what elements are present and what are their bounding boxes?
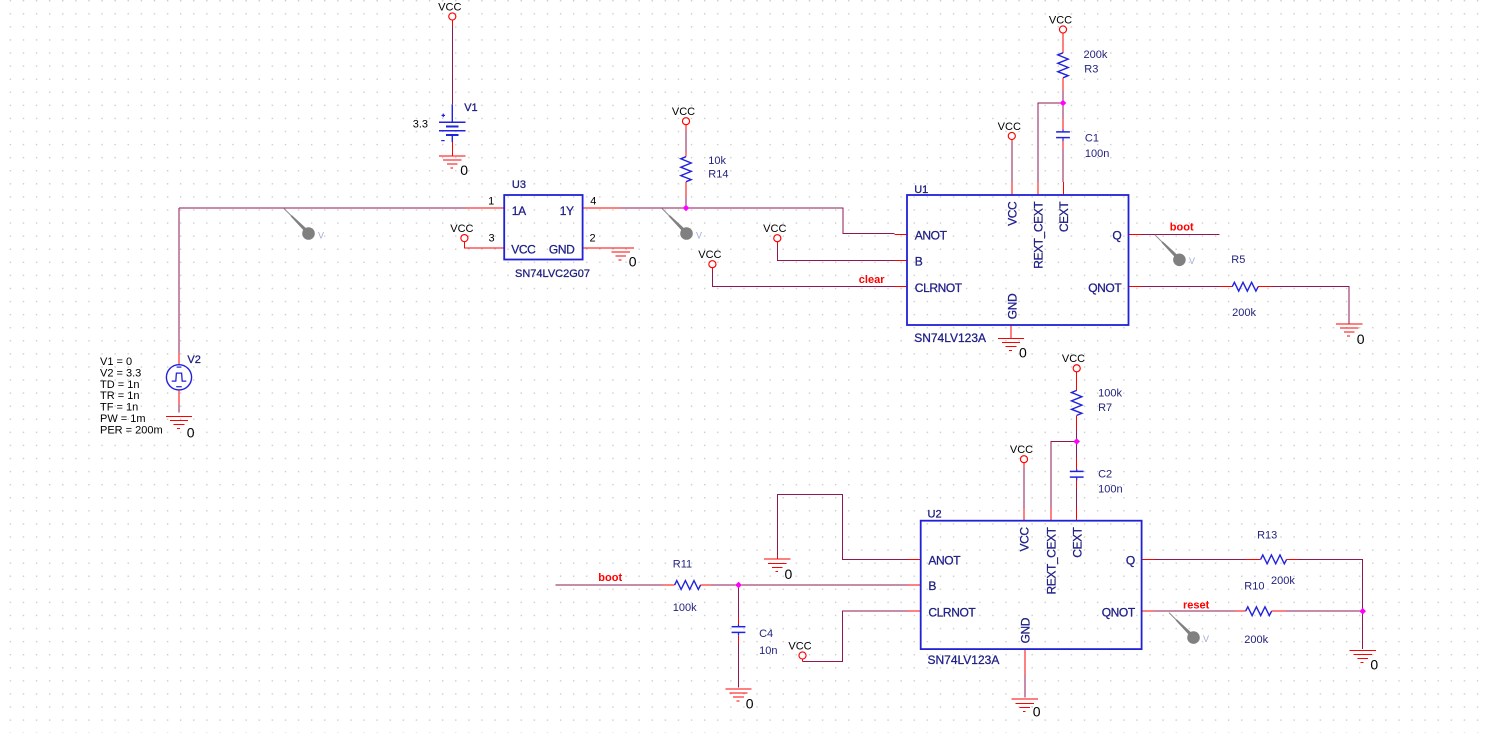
svg-text:VCC: VCC bbox=[698, 249, 721, 261]
battery V1 bbox=[413, 20, 478, 156]
svg-text:TF = 1n: TF = 1n bbox=[100, 402, 138, 414]
ground 0 (U2 ANOT) bbox=[764, 555, 792, 582]
wire C4 to ground bbox=[738, 644, 740, 688]
svg-text:R10: R10 bbox=[1244, 581, 1264, 593]
svg-text:3.3: 3.3 bbox=[413, 119, 428, 131]
svg-text:3: 3 bbox=[488, 233, 494, 245]
svg-text:Q: Q bbox=[1126, 554, 1135, 568]
wire junction D to ground bbox=[1362, 611, 1364, 649]
svg-text:VCC: VCC bbox=[438, 2, 461, 14]
svg-text:R7: R7 bbox=[1098, 402, 1112, 414]
capacitor C2 bbox=[1070, 459, 1123, 496]
svg-text:0: 0 bbox=[1370, 657, 1378, 673]
svg-text:0: 0 bbox=[746, 696, 754, 712]
svg-text:QNOT: QNOT bbox=[1102, 605, 1136, 619]
svg-text:SN74LV123A: SN74LV123A bbox=[914, 331, 986, 345]
svg-text:boot: boot bbox=[1170, 222, 1194, 234]
wire VCC to R7 mid bbox=[1076, 374, 1078, 385]
svg-text:clear: clear bbox=[859, 274, 885, 286]
wire R10 to junction D bbox=[1286, 610, 1363, 612]
wire VCC to R3 none / R3 to junction A bbox=[1062, 90, 1064, 103]
svg-text:REXT_CEXT: REXT_CEXT bbox=[1044, 526, 1058, 594]
svg-text:V: V bbox=[318, 231, 324, 241]
wire boot net to R11 bbox=[556, 584, 663, 586]
pulse source V2 bbox=[166, 353, 200, 404]
svg-text:100k: 100k bbox=[1098, 387, 1122, 399]
svg-text:VCC: VCC bbox=[998, 121, 1021, 133]
svg-text:V: V bbox=[696, 231, 702, 241]
wire R5 to ground bbox=[1272, 287, 1350, 324]
svg-text:200k: 200k bbox=[1084, 49, 1108, 61]
ground 0 (U2 GND) bbox=[1012, 699, 1041, 719]
power VCC (R14) bbox=[672, 106, 695, 125]
svg-text:200k: 200k bbox=[1232, 307, 1256, 319]
voltage probe VP2 bbox=[662, 209, 702, 241]
power VCC (R7) bbox=[1062, 353, 1085, 372]
svg-text:GND: GND bbox=[549, 242, 575, 256]
wire V1 to VCC bbox=[451, 27, 453, 105]
wire junction B to C2 bbox=[1076, 442, 1078, 459]
wire ground to U2 ANOT bbox=[777, 494, 907, 559]
wire junction B to U2 REXT_CEXT bbox=[1051, 442, 1077, 508]
power VCC (U1 CLRNOT) bbox=[698, 249, 721, 270]
voltage probe VP4 bbox=[1169, 613, 1209, 645]
svg-text:B: B bbox=[928, 579, 936, 593]
wire VCC to U1 B bbox=[777, 245, 894, 261]
wire C2 to U2 CEXT bbox=[1076, 488, 1078, 508]
resistor R14 bbox=[681, 124, 729, 196]
svg-text:V2 = 3.3: V2 = 3.3 bbox=[100, 367, 141, 379]
wire net IN vertical to V2 bbox=[178, 208, 180, 353]
svg-text:R3: R3 bbox=[1084, 64, 1098, 76]
svg-text:SN74LVC2G07: SN74LVC2G07 bbox=[515, 268, 590, 280]
svg-text:R13: R13 bbox=[1257, 530, 1277, 542]
power VCC (U1 VCC pin) bbox=[998, 121, 1021, 142]
svg-text:0: 0 bbox=[187, 425, 195, 441]
svg-text:CEXT: CEXT bbox=[1070, 526, 1084, 557]
svg-text:100n: 100n bbox=[1098, 483, 1122, 495]
svg-text:ANOT: ANOT bbox=[928, 554, 961, 568]
wire boot net from U1 Q bbox=[1142, 233, 1220, 235]
wire VCC to U2 VCC pin bbox=[1023, 468, 1025, 508]
wire junction A to C1 bbox=[1062, 103, 1064, 119]
junction node D bbox=[1359, 608, 1366, 615]
svg-text:boot: boot bbox=[598, 572, 622, 584]
wire R13 to junction D bbox=[1298, 559, 1363, 611]
svg-text:R5: R5 bbox=[1231, 254, 1245, 266]
svg-text:GND: GND bbox=[1006, 293, 1020, 319]
svg-text:V1 = 0: V1 = 0 bbox=[100, 356, 132, 368]
svg-text:reset: reset bbox=[1183, 599, 1210, 611]
wire U2 GND to ground bbox=[1024, 675, 1026, 698]
wire clear net VCC to U1 CLRNOT bbox=[712, 271, 894, 287]
svg-text:Q: Q bbox=[1112, 229, 1121, 243]
ground 0 (R13 R10) bbox=[1350, 651, 1379, 673]
svg-text:PW = 1m: PW = 1m bbox=[100, 413, 146, 425]
V2 parameter text bbox=[100, 356, 163, 436]
resistor R13 bbox=[1246, 530, 1298, 587]
svg-text:B: B bbox=[915, 255, 923, 269]
wire C1 to U1 CEXT bbox=[1062, 148, 1064, 182]
power VCC (V1) bbox=[438, 2, 461, 21]
voltage probe VP1 bbox=[284, 209, 324, 241]
resistor R11 bbox=[663, 558, 711, 614]
svg-text:VCC: VCC bbox=[763, 223, 786, 235]
power VCC (U1 B input) bbox=[763, 223, 786, 244]
power VCC (U3 pin3) bbox=[450, 223, 473, 242]
svg-text:100n: 100n bbox=[1085, 148, 1109, 160]
resistor R10 bbox=[1235, 581, 1286, 646]
wire junction C to C4 bbox=[738, 585, 740, 618]
resistor R3 bbox=[1058, 33, 1108, 91]
monostable U1 SN74LV123A bbox=[894, 182, 1141, 345]
wire VCC to U2 CLRNOT bbox=[803, 611, 908, 661]
svg-text:V: V bbox=[1189, 256, 1195, 266]
ground 0 (R5) bbox=[1336, 324, 1365, 347]
svg-text:V1: V1 bbox=[464, 102, 477, 114]
svg-text:VCC: VCC bbox=[1006, 201, 1020, 226]
wire reset net U2 QNOT to R10 bbox=[1155, 610, 1236, 612]
buffer U3 SN74LVC2G07 bbox=[464, 179, 620, 280]
ground 0 (V2) bbox=[166, 417, 195, 441]
svg-text:REXT_CEXT: REXT_CEXT bbox=[1031, 201, 1045, 269]
svg-text:0: 0 bbox=[785, 566, 793, 582]
svg-text:ANOT: ANOT bbox=[915, 229, 948, 243]
svg-text:CLRNOT: CLRNOT bbox=[928, 605, 976, 619]
svg-text:C4: C4 bbox=[759, 628, 773, 640]
svg-text:10n: 10n bbox=[759, 645, 777, 657]
junction node B bbox=[1073, 438, 1080, 445]
ground 0 (U3 pin2) bbox=[608, 248, 637, 269]
svg-text:V2: V2 bbox=[187, 354, 200, 366]
svg-text:4: 4 bbox=[590, 196, 596, 208]
svg-text:VCC: VCC bbox=[511, 242, 536, 256]
svg-text:0: 0 bbox=[1033, 704, 1041, 720]
wire R11 to junction C to U2 B bbox=[711, 584, 908, 586]
wire U2 Q to R13 bbox=[1155, 558, 1246, 560]
svg-text:100k: 100k bbox=[673, 602, 697, 614]
svg-text:200k: 200k bbox=[1271, 575, 1295, 587]
svg-text:1: 1 bbox=[488, 196, 494, 208]
svg-text:VCC: VCC bbox=[1062, 353, 1085, 365]
junction node C bbox=[735, 582, 742, 589]
resistor R7 bbox=[1072, 371, 1123, 429]
svg-text:1Y: 1Y bbox=[560, 204, 574, 218]
svg-text:VCC: VCC bbox=[672, 106, 695, 118]
svg-text:VCC: VCC bbox=[1010, 444, 1033, 456]
wire net U3-1Y to U1 ANOT bbox=[621, 208, 895, 234]
resistor R5 bbox=[1219, 254, 1271, 319]
svg-text:C1: C1 bbox=[1085, 132, 1099, 144]
svg-text:2: 2 bbox=[590, 233, 596, 245]
wire net IN horizontal to U3 pin1 bbox=[179, 207, 466, 209]
svg-text:R11: R11 bbox=[673, 558, 692, 570]
power VCC (U2 VCC pin) bbox=[1010, 444, 1033, 468]
junction node at R14 / 1Y bbox=[683, 205, 690, 212]
svg-text:VCC: VCC bbox=[450, 223, 473, 235]
svg-text:SN74LV123A: SN74LV123A bbox=[928, 653, 1000, 667]
svg-text:VCC: VCC bbox=[1049, 14, 1072, 26]
svg-text:PER = 200m: PER = 200m bbox=[100, 424, 163, 436]
svg-text:0: 0 bbox=[460, 162, 468, 178]
svg-text:VCC: VCC bbox=[788, 640, 811, 652]
svg-text:200k: 200k bbox=[1244, 634, 1268, 646]
svg-text:CLRNOT: CLRNOT bbox=[915, 281, 963, 295]
svg-text:U3: U3 bbox=[512, 179, 526, 191]
svg-text:GND: GND bbox=[1018, 617, 1032, 643]
wire V2 to ground bbox=[178, 404, 180, 413]
ground 0 (U1 GND) bbox=[998, 338, 1027, 360]
power VCC (U2 CLRNOT) bbox=[788, 640, 811, 661]
svg-text:CEXT: CEXT bbox=[1057, 201, 1071, 232]
svg-text:0: 0 bbox=[1019, 345, 1027, 361]
svg-text:C2: C2 bbox=[1098, 469, 1112, 481]
svg-text:1A: 1A bbox=[512, 204, 526, 218]
monostable U2 SN74LV123A bbox=[908, 508, 1155, 675]
wire VCC to U1 VCC pin bbox=[1011, 142, 1013, 182]
svg-text:QNOT: QNOT bbox=[1088, 281, 1122, 295]
svg-text:U1: U1 bbox=[914, 184, 928, 196]
svg-text:10k: 10k bbox=[708, 155, 726, 167]
capacitor C4 bbox=[732, 618, 778, 658]
svg-text:TR = 1n: TR = 1n bbox=[100, 390, 139, 402]
svg-text:V: V bbox=[1203, 634, 1209, 644]
junction node A bbox=[1060, 100, 1067, 107]
wire R14 upper bbox=[685, 131, 687, 153]
ground 0 (V1) bbox=[439, 156, 468, 178]
svg-text:R14: R14 bbox=[708, 168, 728, 180]
capacitor C1 bbox=[1056, 119, 1109, 160]
svg-text:U2: U2 bbox=[928, 508, 942, 520]
ground 0 (C4) bbox=[725, 689, 754, 712]
svg-text:0: 0 bbox=[1357, 331, 1365, 347]
wire junction A to U1 REXT_CEXT bbox=[1038, 103, 1063, 182]
wire R7 to junction B bbox=[1076, 430, 1078, 442]
svg-text:0: 0 bbox=[629, 253, 637, 269]
svg-text:TD = 1n: TD = 1n bbox=[100, 379, 139, 391]
wire U1 QNOT to R5 bbox=[1142, 286, 1220, 288]
voltage probe VP3 bbox=[1155, 235, 1195, 266]
wire R14 lower to junction bbox=[685, 197, 687, 209]
power VCC (R3) bbox=[1049, 14, 1072, 33]
svg-text:VCC: VCC bbox=[1018, 527, 1032, 552]
